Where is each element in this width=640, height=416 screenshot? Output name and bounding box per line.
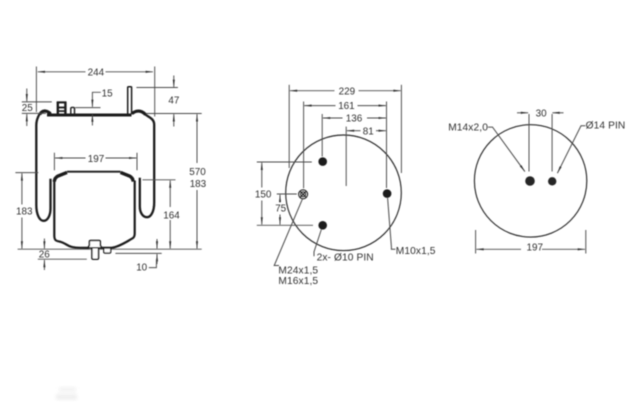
svg-text:183: 183 bbox=[190, 179, 207, 190]
svg-text:197: 197 bbox=[88, 154, 104, 165]
svg-text:M24x1,5: M24x1,5 bbox=[278, 265, 318, 276]
svg-text:150: 150 bbox=[255, 190, 272, 201]
svg-text:M14x2,0: M14x2,0 bbox=[448, 122, 488, 133]
svg-text:Ø14 PIN: Ø14 PIN bbox=[586, 121, 626, 132]
svg-text:26: 26 bbox=[39, 250, 50, 261]
svg-text:136: 136 bbox=[346, 114, 363, 125]
svg-text:30: 30 bbox=[536, 109, 547, 120]
svg-text:570: 570 bbox=[189, 167, 206, 178]
svg-text:164: 164 bbox=[163, 211, 180, 222]
svg-text:M16x1,5: M16x1,5 bbox=[278, 276, 318, 287]
svg-text:229: 229 bbox=[339, 86, 356, 97]
svg-text:197: 197 bbox=[527, 243, 543, 254]
svg-text:161: 161 bbox=[338, 101, 355, 112]
svg-text:2x- Ø10 PIN: 2x- Ø10 PIN bbox=[317, 253, 374, 264]
svg-text:75: 75 bbox=[275, 204, 286, 215]
svg-text:47: 47 bbox=[168, 96, 179, 107]
svg-text:81: 81 bbox=[363, 126, 374, 137]
svg-text:183: 183 bbox=[16, 207, 33, 218]
svg-text:10: 10 bbox=[136, 263, 147, 274]
svg-text:25: 25 bbox=[22, 103, 33, 114]
svg-text:244: 244 bbox=[88, 68, 105, 79]
svg-text:M10x1,5: M10x1,5 bbox=[396, 246, 436, 257]
svg-text:15: 15 bbox=[102, 88, 113, 99]
